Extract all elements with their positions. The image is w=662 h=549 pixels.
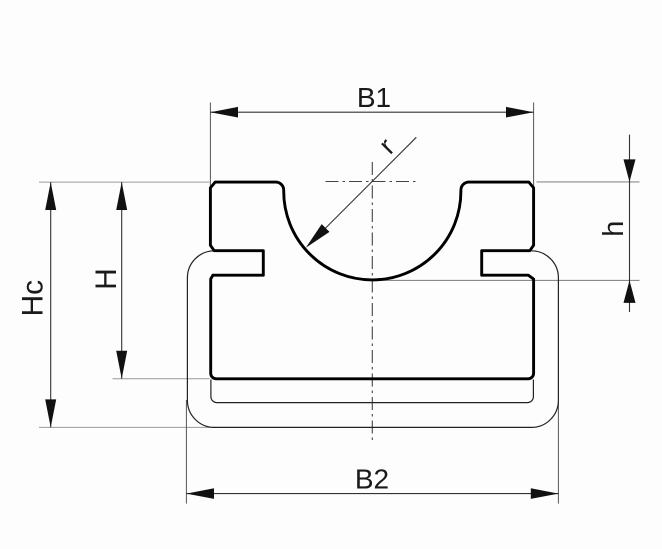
extension line Hc bottom xyxy=(39,426,214,428)
extension line B2 right xyxy=(557,402,559,504)
svg-text:Hc: Hc xyxy=(17,280,50,317)
extension line B1 right xyxy=(533,103,535,189)
extension line B2 left xyxy=(185,400,187,504)
steel channel inner contour xyxy=(211,380,534,403)
extension line H bottom xyxy=(113,378,210,380)
svg-text:B1: B1 xyxy=(357,82,391,113)
svg-text:h: h xyxy=(598,221,630,237)
steel channel outer contour xyxy=(187,251,558,428)
dimension B1 xyxy=(210,107,533,118)
centerline horizontal xyxy=(326,181,417,183)
svg-text:B2: B2 xyxy=(355,464,389,495)
radius arrowhead xyxy=(306,224,330,248)
svg-text:H: H xyxy=(90,268,123,290)
dimension B2 xyxy=(186,488,558,499)
centerline vertical xyxy=(371,162,373,442)
dimension Hc xyxy=(45,182,56,427)
extension line h bottom xyxy=(374,279,640,281)
extension line top (Hc/H) xyxy=(39,181,210,183)
extension line B1 left xyxy=(209,103,211,189)
dimension h xyxy=(624,135,636,312)
extension line h top xyxy=(537,181,640,183)
dimension H xyxy=(116,182,127,379)
radius leader r xyxy=(308,137,416,245)
profile body outline xyxy=(210,182,533,379)
